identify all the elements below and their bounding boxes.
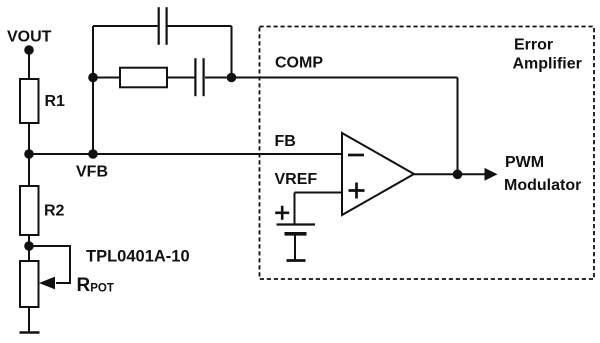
svg-text:Error: Error — [514, 37, 553, 54]
svg-text:FB: FB — [275, 133, 296, 150]
svg-text:VOUT: VOUT — [7, 29, 52, 46]
svg-text:Modulator: Modulator — [504, 177, 581, 194]
svg-text:VFB: VFB — [76, 164, 108, 181]
svg-text:COMP: COMP — [275, 54, 323, 71]
svg-text:VREF: VREF — [275, 171, 318, 188]
svg-text:TPL0401A-10: TPL0401A-10 — [86, 248, 190, 266]
svg-text:PWM: PWM — [505, 154, 544, 171]
svg-text:R1: R1 — [45, 93, 66, 110]
svg-text:R2: R2 — [44, 203, 65, 220]
svg-text:Amplifier: Amplifier — [513, 55, 582, 72]
